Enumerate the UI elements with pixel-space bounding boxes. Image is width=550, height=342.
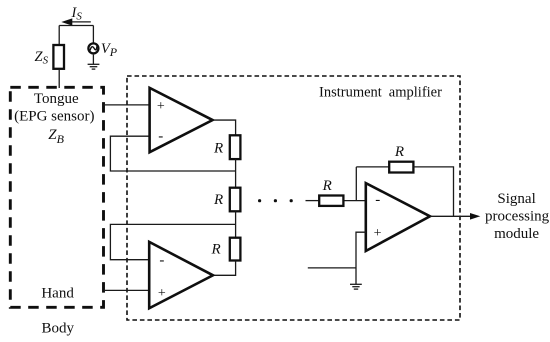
svg-text:-: - bbox=[375, 192, 380, 208]
ground (U3) bbox=[350, 284, 362, 289]
body dashed box bbox=[10, 87, 103, 307]
instrument amplifier dashed box bbox=[127, 76, 460, 320]
wire into R4 bbox=[306, 200, 320, 202]
svg-text:+: + bbox=[158, 286, 166, 301]
wire VP to ground bbox=[92, 55, 94, 64]
svg-text:R: R bbox=[394, 144, 404, 160]
wire reference stub bbox=[308, 267, 356, 269]
svg-text:-: - bbox=[159, 253, 164, 269]
svg-text:R: R bbox=[213, 140, 223, 156]
resistor R5 bbox=[389, 162, 413, 173]
wire ZS to body box bbox=[58, 69, 60, 88]
source VP bbox=[88, 43, 98, 53]
wire R5 to output node bbox=[413, 167, 453, 216]
wire U3 plus input to ground bbox=[356, 232, 366, 284]
wire U1 output to R1 bbox=[213, 120, 236, 135]
svg-text:(EPG sensor): (EPG sensor) bbox=[14, 109, 94, 125]
current arrow I_S bbox=[61, 18, 91, 25]
svg-text:Instrumentamplifier: Instrumentamplifier bbox=[319, 85, 442, 101]
wire left vertical to ZS bbox=[58, 26, 60, 46]
wire feedback node up bbox=[355, 167, 357, 201]
impedance ZS bbox=[53, 45, 64, 69]
op-amp U2 bbox=[149, 242, 213, 308]
ground (VP) bbox=[88, 64, 100, 69]
wire to R5 bbox=[356, 166, 389, 168]
svg-text:R: R bbox=[322, 178, 332, 194]
svg-text:+: + bbox=[157, 99, 165, 114]
wire R2 to R3 bbox=[235, 211, 237, 237]
wire top horizontal bbox=[59, 25, 93, 27]
resistor R3 bbox=[230, 238, 241, 261]
svg-text:Hand: Hand bbox=[41, 286, 74, 302]
resistor R1 bbox=[230, 135, 241, 159]
svg-text:-: - bbox=[158, 129, 163, 145]
svg-text:module: module bbox=[494, 226, 539, 242]
svg-text:+: + bbox=[374, 226, 382, 241]
resistor R2 bbox=[230, 188, 241, 212]
wire U2 feedback (minus input to node2) bbox=[110, 224, 235, 259]
svg-text:Signal: Signal bbox=[497, 191, 535, 207]
op-amp U1 bbox=[150, 88, 213, 152]
wire U1 feedback (minus input to node1) bbox=[110, 136, 235, 171]
wire U3 output with arrow bbox=[430, 213, 480, 220]
wire right vertical to VP bbox=[92, 26, 94, 44]
wire hand to U2 plus input bbox=[104, 289, 151, 291]
wire R1 to R2 bbox=[235, 159, 237, 188]
svg-text:Tongue: Tongue bbox=[34, 91, 79, 107]
label Signal processing module bbox=[485, 191, 550, 242]
svg-text:R: R bbox=[211, 242, 221, 258]
wire R4 to U3 minus input bbox=[345, 200, 367, 202]
op-amp U3 bbox=[366, 183, 430, 251]
svg-text:processing: processing bbox=[485, 209, 550, 225]
wire tongue to U1 plus input bbox=[104, 104, 151, 106]
svg-text:Body: Body bbox=[42, 320, 75, 336]
svg-text:R: R bbox=[213, 192, 223, 208]
ellipsis dots bbox=[258, 199, 293, 202]
wire U2 output to R3 bbox=[213, 261, 236, 276]
resistor R4 bbox=[319, 196, 343, 206]
